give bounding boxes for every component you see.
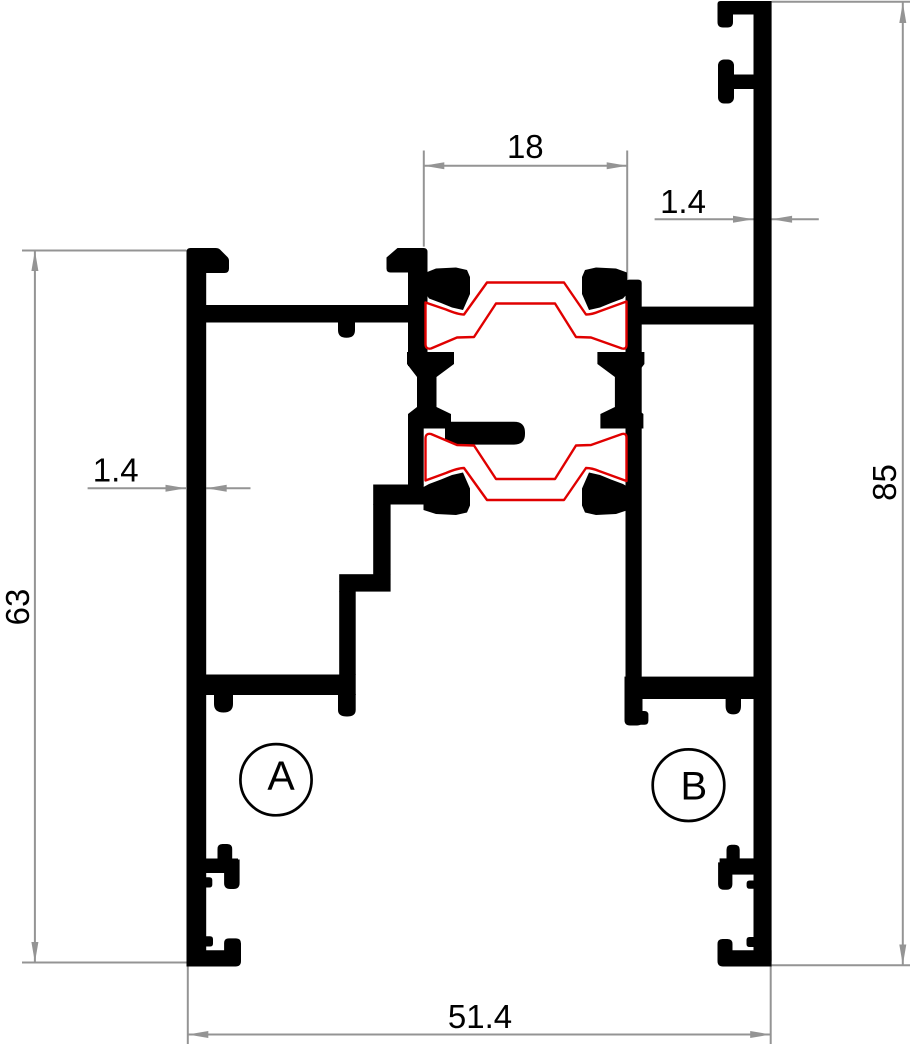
dim 1.4 right arrowheads [733, 216, 754, 223]
profile A central hourglass (thermal break grips) [407, 352, 454, 429]
profile B bottom wall nub [747, 937, 755, 947]
svg-text:85: 85 [866, 464, 903, 501]
dim 18 extension line right [626, 151, 628, 301]
profile A mid-bottom hook bar [224, 860, 240, 890]
profile A wedge grip top strip upper [426, 268, 470, 311]
svg-text:B: B [680, 764, 707, 808]
profile B tooth below bottom web [726, 698, 741, 714]
profile B top cap with hook leg [718, 1, 755, 28]
svg-text:63: 63 [0, 589, 36, 626]
svg-text:A: A [267, 753, 295, 799]
profile A center stub bar [445, 422, 525, 445]
profile B outer wall [754, 1, 772, 966]
profile A bottom web [205, 675, 356, 696]
dim 1.4 left leader lines [88, 487, 186, 489]
dim 85 extension line top [772, 1, 910, 3]
dim 51.4 dimension line [188, 1034, 771, 1036]
profile A wall between steps [373, 504, 390, 575]
label circle B [653, 749, 725, 821]
profile B mid-bottom wall nub [747, 881, 755, 889]
dim 85 extension line bottom [772, 964, 910, 966]
profile A central cap (chamfered) [387, 248, 428, 273]
profile B bottom foot [718, 939, 772, 967]
profile A wedge grip bottom strip lower [424, 473, 471, 516]
profile A lower central wall [339, 591, 356, 675]
profile B central wall [626, 280, 642, 699]
dim 85 arrowheads [899, 3, 906, 24]
profile A tooth below top web [338, 322, 355, 338]
dim 63 arrowheads [31, 251, 38, 272]
thermal break strip bottom (polyamide) [426, 434, 627, 500]
svg-text:18: 18 [507, 128, 544, 165]
profile A step 2 [339, 574, 390, 591]
profile A stub below bottom web [338, 694, 356, 717]
profile B stub below bottom web [625, 698, 643, 726]
profile B wedge grip top strip upper [582, 268, 627, 311]
profile A central wall upper [408, 271, 428, 366]
profile B mid-bottom hook stem [720, 858, 755, 874]
profile B top T-hook bar [718, 60, 734, 104]
profile B central hourglass (thermal break grips) [597, 352, 644, 429]
profile A outer wall with top cap [187, 248, 230, 966]
profile B wedge grip bottom strip lower [582, 473, 628, 516]
profile A mid-bottom wall nub [205, 877, 212, 887]
profile B stub toe [637, 711, 648, 725]
profile B top T-hook stem [733, 75, 755, 90]
dim 85 dimension line [902, 3, 904, 966]
profile A tooth below bottom web [214, 694, 233, 713]
profile A bottom foot [187, 938, 242, 966]
profile A bottom wall nub [205, 936, 213, 946]
dim 63 dimension line [34, 251, 36, 963]
profile A step 1 [373, 485, 424, 505]
svg-text:51.4: 51.4 [448, 998, 512, 1035]
dim 18 dimension line [424, 165, 627, 167]
thermal break strip top (polyamide) [426, 283, 627, 349]
dim 51.4 extension line left [187, 962, 189, 1044]
profile B mid-bottom hook nub [727, 845, 740, 861]
dim 51.4 extension line right [770, 966, 772, 1044]
dim 51.4 arrowheads [188, 1031, 209, 1038]
svg-text:1.4: 1.4 [93, 452, 139, 489]
label circle A [240, 744, 311, 815]
profile B top web [641, 307, 755, 325]
profile B bottom web [625, 677, 755, 699]
dim 63 extension line top [22, 250, 187, 252]
profile A mid-bottom hook nub [218, 844, 233, 859]
dim 18 arrowheads [424, 162, 445, 169]
profile A mid-bottom hook stem [205, 859, 238, 874]
profile B mid-bottom hook bar [718, 862, 732, 889]
dim 18 extension line left [423, 151, 425, 247]
dim 63 extension line bottom [22, 962, 187, 964]
dim 1.4 left arrowheads [166, 485, 187, 492]
svg-text:1.4: 1.4 [660, 183, 706, 220]
profile A central wall lower [408, 428, 424, 485]
dim 1.4 right leader lines [655, 218, 754, 220]
profile A top web [205, 305, 428, 323]
